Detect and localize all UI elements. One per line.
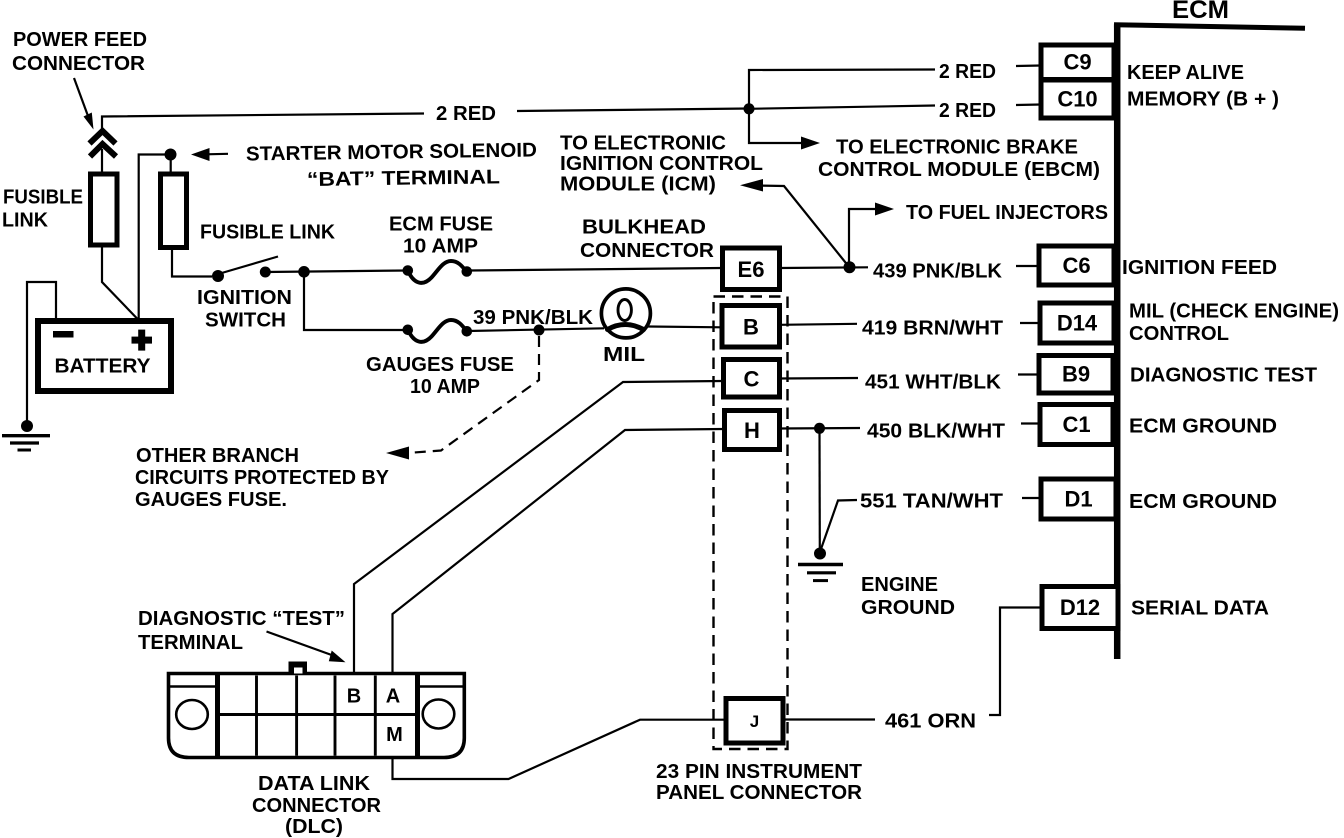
wire pin C to 451 label xyxy=(779,377,858,380)
svg-text:439 PNK/BLK: 439 PNK/BLK xyxy=(873,261,1003,283)
arrowhead to fuel injectors xyxy=(875,203,894,216)
svg-text:CONTROL: CONTROL xyxy=(1129,323,1229,345)
wire starter solenoid node to battery positive xyxy=(139,155,171,321)
svg-text:IGNITION FEED: IGNITION FEED xyxy=(1122,257,1277,279)
ECM pin C6 xyxy=(1039,246,1114,285)
ECM pin D12 xyxy=(1042,587,1118,629)
svg-text:CONTROL MODULE (EBCM): CONTROL MODULE (EBCM) xyxy=(818,159,1100,181)
svg-text:TO ELECTRONIC: TO ELECTRONIC xyxy=(560,133,726,155)
svg-text:MIL: MIL xyxy=(603,344,645,366)
svg-text:450 BLK/WHT: 450 BLK/WHT xyxy=(867,421,1005,443)
wire fusible link A to battery positive xyxy=(102,245,139,320)
svg-text:FUSIBLE LINK: FUSIBLE LINK xyxy=(200,222,336,244)
svg-text:“BAT” TERMINAL: “BAT” TERMINAL xyxy=(307,166,500,191)
wire 2 RED feed top-right segment to junction xyxy=(517,109,749,112)
svg-text:MEMORY (B + ): MEMORY (B + ) xyxy=(1127,89,1279,111)
wire junction up to C9 branch xyxy=(749,70,935,109)
svg-text:GAUGES FUSE: GAUGES FUSE xyxy=(366,354,514,376)
wire stub into pin C1 xyxy=(1021,422,1041,424)
wire splice to ICM diagonal xyxy=(758,186,850,268)
fusible link B xyxy=(161,174,187,248)
svg-text:C6: C6 xyxy=(1062,253,1090,278)
connector pin C xyxy=(724,360,780,398)
svg-text:B: B xyxy=(347,686,361,708)
wire pin J to 461 label xyxy=(783,718,875,720)
ECM pin D1 xyxy=(1041,479,1116,519)
arrow starter solenoid pointer xyxy=(206,153,228,156)
wire 2 RED feed top-left segment xyxy=(102,114,424,130)
svg-text:CONNECTOR: CONNECTOR xyxy=(12,53,146,75)
wire fusible link B to ignition switch xyxy=(172,248,212,277)
wire pin H to 450 label xyxy=(779,427,860,430)
ECM pin B9 xyxy=(1039,356,1113,394)
svg-text:GAUGES FUSE.: GAUGES FUSE. xyxy=(135,489,287,511)
svg-text:ECM GROUND: ECM GROUND xyxy=(1129,491,1277,513)
wire 39 PNK/BLK gauges fuse to MIL xyxy=(468,328,604,331)
svg-text:MIL (CHECK ENGINE): MIL (CHECK ENGINE) xyxy=(1129,301,1339,323)
wire junction down to gauges fuse xyxy=(304,271,407,330)
wire junction to C10 branch xyxy=(749,106,935,109)
svg-text:OTHER BRANCH: OTHER BRANCH xyxy=(136,445,299,467)
wire dashed other-branch circuits xyxy=(414,336,539,453)
svg-text:DIAGNOSTIC TEST: DIAGNOSTIC TEST xyxy=(1130,365,1317,387)
node 39 PNK/BLK branch splice xyxy=(534,325,545,336)
wire stub into pin D1 xyxy=(1022,497,1042,499)
svg-text:(DLC): (DLC) xyxy=(285,816,343,838)
wire stub into pin D14 xyxy=(1020,322,1042,324)
arrowhead to EBCM xyxy=(801,137,820,150)
wire 461 ORN to pin D12 serial data xyxy=(989,608,1042,716)
svg-text:B9: B9 xyxy=(1062,362,1090,387)
svg-text:IGNITION CONTROL: IGNITION CONTROL xyxy=(560,153,763,175)
svg-text:TO FUEL INJECTORS: TO FUEL INJECTORS xyxy=(906,202,1108,224)
svg-text:23 PIN INSTRUMENT: 23 PIN INSTRUMENT xyxy=(656,761,862,783)
ignition switch contact 2 xyxy=(260,267,271,278)
wire pin B to 419 label xyxy=(780,324,857,325)
svg-text:BULKHEAD: BULKHEAD xyxy=(582,217,706,239)
svg-text:551 TAN/WHT: 551 TAN/WHT xyxy=(860,491,1003,513)
svg-text:IGNITION: IGNITION xyxy=(197,287,292,309)
svg-text:DIAGNOSTIC “TEST”: DIAGNOSTIC “TEST” xyxy=(138,608,345,630)
wire pin E6 to 439 junction xyxy=(780,266,868,269)
node junction 2 RED splice xyxy=(744,103,755,114)
svg-text:A: A xyxy=(386,686,400,708)
fuse GAUGES FUSE 10A xyxy=(403,320,473,342)
svg-text:10 AMP: 10 AMP xyxy=(410,376,480,398)
wire switch to ECM fuse xyxy=(265,271,407,273)
svg-text:39 PNK/BLK: 39 PNK/BLK xyxy=(473,307,594,329)
svg-text:TERMINAL: TERMINAL xyxy=(138,632,243,654)
svg-text:CONNECTOR: CONNECTOR xyxy=(580,240,715,262)
svg-text:C9: C9 xyxy=(1063,50,1091,75)
svg-text:419 BRN/WHT: 419 BRN/WHT xyxy=(862,318,1003,340)
svg-text:POWER FEED: POWER FEED xyxy=(13,29,147,51)
wire ECM fuse to pin E6 xyxy=(469,268,722,271)
node ignition feed junction xyxy=(298,266,310,278)
svg-text:TO ELECTRONIC BRAKE: TO ELECTRONIC BRAKE xyxy=(836,137,1078,159)
ECM pin D14 xyxy=(1040,303,1114,343)
ignition switch blade xyxy=(220,257,278,274)
wire stub into pin B9 xyxy=(1018,373,1041,375)
ignition switch contact 1 xyxy=(212,270,224,282)
wire DLC M terminal to pin J xyxy=(393,720,727,779)
wire splice up to fuel injectors xyxy=(849,209,879,267)
svg-text:461 ORN: 461 ORN xyxy=(885,711,976,733)
svg-text:KEEP ALIVE: KEEP ALIVE xyxy=(1127,62,1244,84)
svg-text:DATA LINK: DATA LINK xyxy=(258,773,371,795)
svg-text:E6: E6 xyxy=(738,257,765,282)
wire stub into pin C6 xyxy=(1016,265,1040,267)
ECM pin C9 xyxy=(1041,45,1114,80)
svg-text:GROUND: GROUND xyxy=(861,597,955,619)
arrowhead other branch xyxy=(386,447,409,460)
ECM pin C10 xyxy=(1041,80,1114,118)
svg-text:10 AMP: 10 AMP xyxy=(403,236,478,258)
svg-text:D12: D12 xyxy=(1060,595,1100,620)
svg-text:H: H xyxy=(744,418,760,443)
svg-text:C1: C1 xyxy=(1062,412,1090,437)
svg-text:SWITCH: SWITCH xyxy=(205,310,286,332)
svg-text:ENGINE: ENGINE xyxy=(861,574,938,596)
svg-text:ECM FUSE: ECM FUSE xyxy=(389,214,493,236)
connector pin H xyxy=(725,411,780,450)
battery BAT xyxy=(38,321,171,391)
arrow diagnostic test pointer xyxy=(267,632,334,656)
wire DLC B terminal to pin C xyxy=(354,381,723,676)
connector 23-pin dashed outline xyxy=(714,297,788,750)
connector bulkhead pin E6 xyxy=(723,248,780,290)
lamp MIL indicator xyxy=(601,289,650,338)
svg-text:J: J xyxy=(750,712,759,731)
svg-text:C: C xyxy=(744,367,760,392)
ground battery ground symbol xyxy=(2,420,50,450)
connector pin B xyxy=(722,306,780,348)
svg-text:CONNECTOR: CONNECTOR xyxy=(252,795,382,817)
ground engine ground symbol xyxy=(798,548,843,581)
wire DLC A terminal to pin H xyxy=(393,429,725,676)
connector pin J xyxy=(726,699,783,744)
arrow power feed connector pointer xyxy=(74,78,88,116)
svg-text:PANEL CONNECTOR: PANEL CONNECTOR xyxy=(656,782,863,804)
connector data link connector DLC xyxy=(169,662,465,758)
svg-text:451 WHT/BLK: 451 WHT/BLK xyxy=(865,372,1002,394)
ECM module boundary xyxy=(1114,24,1305,659)
svg-text:B: B xyxy=(743,315,759,340)
svg-text:D1: D1 xyxy=(1064,487,1092,512)
svg-text:M: M xyxy=(386,724,403,746)
wire power feed connector drop xyxy=(101,149,103,174)
wire stub into pin C10 xyxy=(1016,103,1041,106)
wire stub into pin C9 xyxy=(1016,64,1041,67)
svg-text:2 RED: 2 RED xyxy=(436,103,496,125)
svg-text:2 RED: 2 RED xyxy=(939,100,996,122)
fusible link A xyxy=(91,174,118,245)
svg-text:C10: C10 xyxy=(1057,87,1097,112)
wire splice down to engine ground xyxy=(818,428,820,549)
svg-text:LINK: LINK xyxy=(2,210,49,232)
svg-text:CIRCUITS PROTECTED BY: CIRCUITS PROTECTED BY xyxy=(135,467,390,489)
arrowhead to ICM xyxy=(740,179,763,192)
wire MIL to pin B xyxy=(648,325,722,328)
svg-text:ECM: ECM xyxy=(1172,0,1229,24)
node starter solenoid BAT terminal xyxy=(165,149,177,161)
svg-text:2 RED: 2 RED xyxy=(939,61,996,83)
fuse ECM FUSE 10A xyxy=(403,261,473,283)
svg-text:FUSIBLE: FUSIBLE xyxy=(3,187,83,209)
svg-text:SERIAL DATA: SERIAL DATA xyxy=(1131,598,1269,620)
node 439 PNK/BLK splice xyxy=(844,261,856,273)
wire junction down to EBCM branch xyxy=(749,109,806,143)
svg-text:D14: D14 xyxy=(1057,311,1098,336)
svg-text:BATTERY: BATTERY xyxy=(55,356,152,378)
connector power feed chevrons xyxy=(90,131,117,157)
svg-text:ECM GROUND: ECM GROUND xyxy=(1129,416,1277,438)
wire battery negative to ground xyxy=(27,282,56,421)
node 450 ground splice xyxy=(814,423,825,434)
wire 551 TAN/WHT stub to ground wire xyxy=(821,500,857,549)
wire node to fusible link B xyxy=(170,155,172,175)
svg-text:MODULE (ICM): MODULE (ICM) xyxy=(560,174,716,196)
svg-text:STARTER MOTOR SOLENOID: STARTER MOTOR SOLENOID xyxy=(246,139,537,165)
ECM pin C1 xyxy=(1040,405,1113,445)
